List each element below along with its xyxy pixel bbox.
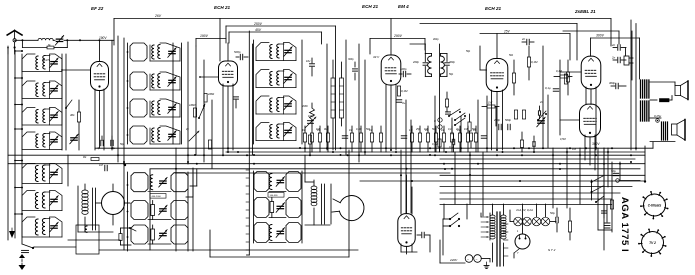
wire col D inner bus a bbox=[248, 31, 250, 255]
wire left of PSU verticals bbox=[454, 152, 456, 204]
capacitor 10V bbox=[310, 63, 315, 65]
resistor R11 0.1M bbox=[527, 57, 530, 67]
ground dashed arrow bbox=[21, 256, 23, 265]
svg-text:0,25μ: 0,25μ bbox=[654, 114, 662, 118]
IF transformer T1 winding a bbox=[331, 78, 335, 118]
wire bus y159 bbox=[440, 158, 635, 160]
capacitor small 50p bbox=[234, 96, 239, 98]
svg-text:1: 1 bbox=[517, 230, 519, 233]
mains transformer T6 primary bbox=[490, 215, 495, 218]
wire T3 top leads bbox=[630, 20, 632, 150]
wire V3 top bbox=[390, 19, 392, 56]
resistor R1 bbox=[47, 46, 54, 49]
wire 190V mid stub bbox=[196, 38, 226, 40]
IF transformer T2 winding b bbox=[441, 56, 445, 74]
boxed range label D5 bbox=[268, 193, 284, 198]
tuned circuit cell A3 (coil + trimmer) bbox=[22, 108, 35, 126]
ground under transformer bbox=[484, 265, 489, 267]
antenna coil L1 bbox=[38, 38, 53, 40]
wire col A left bus bbox=[21, 54, 23, 244]
wire lower left links bbox=[77, 186, 79, 232]
resistor R orig 2M bbox=[204, 94, 207, 103]
tuned circuit cell B3 (coil + trimmer) bbox=[130, 99, 147, 117]
wire bus y175.3 bbox=[440, 174, 645, 176]
wire V5 top bbox=[590, 38, 592, 56]
wire bottom rail left bbox=[34, 246, 76, 248]
wire V4 grid bbox=[480, 69, 487, 71]
resistor R12 bbox=[514, 110, 517, 119]
wire switch bus x220 bbox=[219, 19, 221, 62]
switch S1a bbox=[199, 104, 205, 118]
svg-text:2n: 2n bbox=[611, 43, 616, 47]
svg-text:500p: 500p bbox=[234, 50, 241, 54]
wire V2 grid bbox=[200, 76, 219, 78]
socket diagram TV2 bbox=[642, 232, 664, 254]
wire bus y173 bbox=[175, 172, 450, 174]
svg-text:300p: 300p bbox=[449, 60, 455, 64]
svg-text:ECH 21: ECH 21 bbox=[214, 5, 231, 10]
svg-text:100p: 100p bbox=[400, 67, 407, 71]
oscillator coil L20 bbox=[82, 190, 88, 194]
svg-text:0,1M: 0,1M bbox=[531, 60, 538, 64]
tuned circuit cell B7 (coil + trimmer) bbox=[131, 225, 148, 244]
wire vert x66 bbox=[65, 54, 67, 150]
IF transformer T2 winding a bbox=[428, 56, 432, 74]
svg-text:1M: 1M bbox=[441, 129, 444, 132]
tuned circuit cell A5 (coil + trimmer) bbox=[22, 164, 35, 184]
switch ladder right bbox=[603, 148, 605, 250]
svg-text:1M: 1M bbox=[409, 129, 412, 132]
svg-text:50μ: 50μ bbox=[550, 211, 555, 215]
trimmer C1 bbox=[53, 39, 55, 41]
boxed range label B5 bbox=[150, 194, 166, 199]
svg-text:26V: 26V bbox=[154, 14, 162, 18]
dial lamps bbox=[514, 217, 523, 226]
svg-text:33 V: 33 V bbox=[373, 55, 380, 59]
capacitor C21 50u bbox=[555, 217, 557, 223]
speaker LS1 cone bbox=[681, 81, 689, 100]
tube EF22 V1 bbox=[91, 62, 109, 91]
resistor 520 bbox=[520, 140, 523, 148]
capacitor T1 cap bbox=[353, 68, 358, 70]
tuned circuit cell A7 (coil + trimmer) bbox=[22, 217, 35, 237]
svg-text:EM 4: EM 4 bbox=[398, 4, 409, 9]
wire PSU verticals bbox=[443, 204, 445, 219]
svg-text:250V: 250V bbox=[253, 22, 263, 26]
wire R16-LS1 bbox=[669, 99, 672, 101]
svg-text:TV 2: TV 2 bbox=[649, 241, 656, 245]
capacitor C14 0.1 bbox=[553, 88, 559, 90]
resistor R5 bbox=[208, 140, 211, 149]
wire EF22 pins bbox=[94, 89, 96, 150]
wire switch bus x188 bbox=[187, 42, 189, 164]
svg-text:200p: 200p bbox=[493, 118, 500, 122]
tuned circuit cell D3 (coil + trimmer) bbox=[256, 96, 269, 114]
svg-text:6k: 6k bbox=[48, 44, 51, 47]
wire x359 vert bbox=[358, 44, 360, 162]
capacitor row bbox=[342, 135, 348, 137]
wire right extras bbox=[597, 148, 599, 230]
ground left edge bbox=[9, 231, 15, 238]
capacitor 3n bbox=[532, 142, 534, 147]
capacitor C15 2n bbox=[617, 45, 619, 51]
wire vert x118 bbox=[117, 36, 119, 162]
wire T3-LS1 bbox=[650, 81, 675, 83]
wire rail y23 bbox=[420, 23, 577, 25]
capacitor triple lines bbox=[604, 222, 610, 224]
svg-text:~: ~ bbox=[467, 258, 469, 262]
junction dots buses bbox=[194, 154, 196, 156]
IF transformer T5 core bbox=[321, 184, 323, 224]
tuned circuit cell D5 (coil + trimmer) bbox=[254, 172, 269, 192]
wire switch bus x196 bbox=[195, 46, 197, 155]
resistor R4 1M bbox=[193, 108, 196, 117]
wire bus y148 bbox=[95, 147, 653, 149]
wire x406 vert bbox=[405, 100, 407, 213]
resistor R17 bbox=[568, 221, 571, 232]
mains transformer T6 core bbox=[496, 212, 498, 266]
capacitor C20 bbox=[421, 232, 423, 238]
capacitor C6 500p bbox=[239, 54, 241, 60]
wire V5 pins bbox=[585, 87, 587, 104]
wire LS2 links bbox=[650, 117, 661, 119]
trimmer C5 padder bbox=[189, 131, 199, 141]
svg-text:50p: 50p bbox=[449, 73, 454, 76]
svg-text:0,1: 0,1 bbox=[448, 128, 452, 131]
svg-text:7: 7 bbox=[517, 252, 519, 255]
wire col A right bus bbox=[61, 54, 63, 150]
fuse F1 bbox=[465, 255, 473, 263]
trimmer C3 bbox=[71, 137, 77, 139]
svg-text:190V: 190V bbox=[200, 34, 209, 38]
tweeter element bbox=[624, 56, 629, 65]
svg-text:300V: 300V bbox=[592, 142, 600, 146]
resistor R13 bbox=[566, 72, 569, 82]
svg-text:460-2000: 460-2000 bbox=[152, 196, 162, 198]
tube ECH21 V4 bbox=[486, 59, 508, 92]
oscillator can (circle) bbox=[102, 192, 125, 215]
wire V5-V6 link bbox=[560, 71, 581, 73]
trimmer C7 bbox=[305, 117, 316, 128]
wire T2 mid vertical bbox=[439, 44, 441, 152]
capacitor C17 300p bbox=[615, 83, 617, 89]
wire heater rail 26V bbox=[114, 18, 611, 20]
svg-text:2n: 2n bbox=[611, 56, 616, 60]
switch lever bottom colA bbox=[22, 244, 33, 248]
output transformer T3 winding bbox=[640, 80, 642, 98]
capacitor C4a 4u bbox=[100, 140, 102, 146]
socket diagram C-tillsats bbox=[644, 194, 666, 216]
tuned circuit cell D6 (coil + trimmer) bbox=[254, 198, 269, 218]
svg-text:0,5M: 0,5M bbox=[560, 138, 566, 141]
wire bus y168.8 bbox=[150, 168, 640, 170]
wire bottom rail bbox=[99, 249, 358, 251]
svg-text:2n: 2n bbox=[521, 37, 526, 41]
wire V2 top bbox=[227, 43, 229, 61]
wire col D inner bus b bbox=[252, 44, 254, 155]
svg-text:10v: 10v bbox=[306, 59, 311, 63]
wire col A stub bus bbox=[14, 50, 16, 238]
svg-text:0,1M: 0,1M bbox=[401, 89, 408, 93]
wire V4 pins bbox=[491, 90, 493, 150]
wire L1 box sides bbox=[21, 40, 23, 47]
wire col B mid bus bbox=[172, 43, 174, 144]
wire EF22 grid lead bbox=[62, 69, 91, 71]
wire 45V box bbox=[229, 31, 322, 33]
wire EF22 top lead bbox=[99, 40, 101, 61]
svg-text:40k: 40k bbox=[70, 113, 75, 117]
oscillator pad box bbox=[76, 225, 99, 254]
svg-text:3+: 3+ bbox=[402, 101, 406, 105]
resistor row (dividers) bbox=[303, 133, 306, 142]
svg-text:KB1/7a: KB1/7a bbox=[42, 59, 51, 62]
svg-text:1MΩ: 1MΩ bbox=[189, 103, 196, 107]
resistor R10 bbox=[512, 73, 515, 83]
svg-text:50p: 50p bbox=[466, 50, 471, 53]
resistor mid a bbox=[468, 122, 471, 131]
resistor R15 82k bbox=[560, 75, 568, 78]
svg-text:S T 2: S T 2 bbox=[548, 248, 556, 252]
svg-text:290V: 290V bbox=[393, 34, 403, 38]
rectifier tube V8 bbox=[515, 234, 530, 249]
svg-text:300V: 300V bbox=[596, 34, 605, 38]
capacitor 50u right bbox=[613, 172, 619, 174]
svg-text:ECH 21: ECH 21 bbox=[362, 4, 379, 9]
resistor R6 bbox=[308, 135, 311, 144]
trimmer right bbox=[538, 120, 544, 122]
coil core lines bbox=[92, 188, 94, 230]
svg-text:0,1μ: 0,1μ bbox=[545, 86, 551, 90]
wire col D left bus bbox=[253, 40, 255, 144]
svg-text:4×A,5V, 0,2A: 4×A,5V, 0,2A bbox=[516, 208, 533, 212]
wire bus y155 bbox=[8, 154, 645, 156]
tuned circuit cell A2 (coil + trimmer) bbox=[22, 81, 35, 99]
wire bus y193 bbox=[440, 192, 620, 194]
wire 25V rail bbox=[480, 33, 570, 35]
wire V2 pins bbox=[222, 84, 224, 155]
switch S5 bbox=[455, 113, 465, 120]
capacitor C13 200p 500p bbox=[498, 124, 500, 130]
svg-text:25V: 25V bbox=[503, 30, 511, 34]
wire right verticals bbox=[552, 148, 554, 208]
svg-text:190V: 190V bbox=[99, 36, 107, 40]
resistor 0.1M bot bbox=[438, 139, 441, 147]
wire 250V box bbox=[226, 25, 336, 27]
voltage selector bbox=[489, 213, 491, 240]
tuned circuit cell D4 (coil + trimmer) bbox=[256, 123, 269, 141]
wire bus y163.7 bbox=[8, 163, 645, 165]
wire V3 pins bbox=[385, 84, 387, 152]
tube ECH21 V3 bbox=[381, 55, 401, 85]
wire L1 to grid bbox=[64, 39, 114, 41]
svg-text:160-580: 160-580 bbox=[270, 195, 279, 197]
wire EM4 pins bbox=[400, 244, 402, 252]
wire 300V rail bbox=[591, 37, 640, 39]
tuned circuit cell A6 (coil + trimmer) bbox=[22, 191, 35, 211]
tuned circuit cell A4 (coil + trimmer) bbox=[22, 132, 35, 150]
svg-text:C: C bbox=[434, 119, 437, 123]
capacitor C9 bbox=[396, 99, 402, 101]
svg-text:~: ~ bbox=[476, 258, 478, 262]
capacitor 0.1u bot bbox=[451, 139, 453, 145]
switch S3 bbox=[538, 111, 546, 120]
wire switch bus x212 bbox=[211, 100, 213, 168]
wire EM4 feeds bbox=[400, 181, 402, 214]
svg-text:2MΩ: 2MΩ bbox=[207, 92, 215, 96]
tuned circuit cell D7 (coil + trimmer) bbox=[254, 223, 269, 243]
wire x411 vert bbox=[410, 120, 412, 213]
sub-circuit left of row B7 bbox=[119, 234, 122, 241]
IF transformer T5 winding a bbox=[311, 186, 317, 190]
tuned circuit cell B1 (coil + trimmer) bbox=[130, 43, 147, 61]
svg-text:220V: 220V bbox=[449, 258, 458, 262]
wire osc box outline bbox=[209, 230, 211, 257]
junction dot osc bbox=[124, 164, 126, 166]
resistor 0.5M bbox=[445, 99, 448, 107]
capacitor C10b 300p bbox=[445, 62, 450, 64]
tuned circuit cell B2 (coil + trimmer) bbox=[130, 72, 147, 90]
wire bottom vert x150 bbox=[149, 169, 151, 250]
wire details verticals bbox=[434, 96, 436, 152]
speaker LS2 cone bbox=[677, 120, 685, 141]
junction dots col B bbox=[127, 51, 129, 53]
resistor 1W bbox=[487, 105, 495, 108]
svg-text:AGA 1775 I: AGA 1775 I bbox=[619, 197, 630, 252]
wire bus y186.5 bbox=[440, 186, 632, 188]
IF transformer T1 winding b bbox=[340, 78, 344, 118]
capacitor C8 100p bbox=[402, 71, 404, 77]
wire 290V box bbox=[370, 38, 425, 40]
svg-text:0,1M: 0,1M bbox=[356, 128, 362, 131]
tuned circuit cell D1 (coil + trimmer) bbox=[256, 43, 269, 61]
capacitor Ck bbox=[104, 165, 106, 171]
wire bus y204 bbox=[440, 204, 612, 206]
mains switch S4 bbox=[449, 218, 451, 220]
resistor R8 0.1M bbox=[397, 86, 400, 96]
svg-text:200p: 200p bbox=[412, 60, 419, 64]
tuned circuit cell D2 (coil + trimmer) bbox=[256, 70, 269, 88]
svg-text:45V: 45V bbox=[255, 28, 262, 32]
tube EM4 V7 bbox=[398, 214, 415, 247]
tube EBL21 V5 bbox=[581, 56, 601, 89]
tube ECH21 V2 bbox=[219, 61, 238, 86]
wire col B left bus bbox=[127, 43, 129, 144]
wire col D right bus bbox=[301, 40, 303, 144]
speaker LS2 throat bbox=[672, 124, 678, 135]
wire switch bus x204 bbox=[203, 60, 205, 162]
svg-text:2MΩ: 2MΩ bbox=[301, 104, 308, 108]
antenna bbox=[7, 31, 14, 36]
resistor Rk bbox=[91, 158, 99, 161]
mains transformer T6 secondary bbox=[501, 215, 506, 218]
svg-text:0,1M: 0,1M bbox=[556, 69, 563, 73]
tuned circuit cell B4 (coil + trimmer) bbox=[130, 126, 147, 144]
wire vert x176 bbox=[175, 148, 177, 251]
capacitor C4b bbox=[110, 140, 112, 146]
wire cell feed stubs col A bbox=[15, 50, 22, 52]
resistor mid b bbox=[469, 133, 472, 141]
wire col B right bus bbox=[181, 43, 183, 144]
wire T5 links bbox=[304, 155, 306, 182]
wire V4 top bbox=[496, 34, 498, 59]
svg-text:2xEBL 21: 2xEBL 21 bbox=[574, 9, 596, 14]
svg-text:300p: 300p bbox=[609, 81, 615, 85]
switch lever x66 bbox=[66, 100, 72, 108]
wire antenna feed bbox=[15, 39, 38, 41]
wire vert x124 bbox=[123, 38, 125, 250]
svg-text:462p: 462p bbox=[433, 38, 439, 41]
wire bus y199 bbox=[440, 198, 612, 200]
tuned circuit cell B6 (coil + trimmer) bbox=[131, 201, 148, 220]
wire couplings left of EBL bbox=[542, 46, 544, 148]
tuned circuit cell A1 (coil + trimmer) bbox=[22, 54, 35, 72]
wire T1 leads bbox=[326, 44, 328, 150]
svg-text:EF 22: EF 22 bbox=[91, 6, 104, 11]
svg-text:50μ: 50μ bbox=[120, 143, 125, 146]
svg-text:C-tillsats: C-tillsats bbox=[648, 203, 662, 207]
svg-text:25p: 25p bbox=[415, 128, 421, 131]
wire left edge bus bbox=[7, 48, 9, 240]
capacitor C12 2n bbox=[526, 39, 528, 45]
wire bus y181 bbox=[360, 180, 645, 182]
wire rail y31 bbox=[563, 30, 619, 32]
magic circle arc bbox=[339, 196, 364, 221]
svg-text:1M: 1M bbox=[302, 129, 305, 132]
capacitor C16 2n bbox=[617, 57, 619, 63]
svg-text:50k: 50k bbox=[509, 54, 514, 57]
tuned circuit cell B5 (coil + trimmer) bbox=[131, 173, 148, 192]
svg-text:ECH 21: ECH 21 bbox=[485, 6, 502, 11]
resistor R14 0.1M bbox=[564, 74, 567, 84]
wire x365 vert bbox=[364, 60, 366, 155]
resistor R16 hatched bbox=[660, 99, 670, 102]
svg-text:100p: 100p bbox=[308, 115, 314, 118]
svg-text:300p: 300p bbox=[348, 58, 354, 61]
fuse F2 bbox=[474, 255, 482, 263]
wire bus y152 bbox=[226, 151, 645, 153]
svg-text:4μ: 4μ bbox=[186, 128, 189, 131]
wire 190V feed left bbox=[111, 40, 113, 150]
wire x625 vert bbox=[625, 48, 627, 56]
switch S2 bbox=[449, 109, 460, 116]
svg-text:2n: 2n bbox=[455, 128, 459, 131]
resistor R2 40k bbox=[77, 112, 80, 122]
tube EBL21 V6 bbox=[580, 104, 601, 137]
capacitor C10 200p bbox=[423, 62, 428, 64]
svg-text:500p: 500p bbox=[505, 118, 511, 122]
wire V6 pins bbox=[584, 135, 586, 160]
output transformer T4 small bbox=[661, 122, 663, 140]
speaker LS1 throat bbox=[675, 86, 681, 96]
wire T2 top corner bbox=[410, 43, 425, 45]
svg-text:1M: 1M bbox=[349, 129, 352, 132]
terminal circles C bbox=[438, 118, 442, 122]
wire PSU bottom bbox=[440, 262, 465, 264]
